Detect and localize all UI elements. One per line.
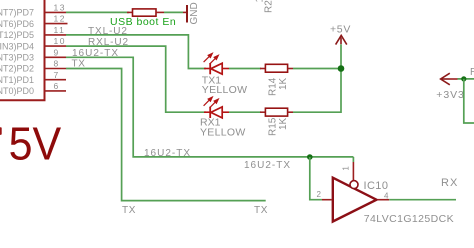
svg-text:12: 12 [54,14,66,24]
+3V3 supply arrow [441,73,450,85]
svg-text:(AIN3)PD4: (AIN3)PD4 [0,41,34,51]
wire 16U2-TX pin9 [66,57,353,157]
wire R2 left lead [127,11,133,13]
svg-text:RX: RX [441,177,458,189]
LED TX1 lead right (red) [222,68,229,70]
wire RXL-U2 pin10 [66,46,206,112]
svg-text:74LVC1G125DCK: 74LVC1G125DCK [364,213,454,225]
buffer IC10 triangle [333,178,377,222]
svg-text:YELLOW: YELLOW [200,127,246,139]
svg-text:+3V3: +3V3 [436,89,464,101]
wire R2 to GND [164,11,183,13]
resistor R15 [265,108,287,116]
svg-text:7: 7 [54,70,59,80]
cut-off red glyph at left edge [0,127,2,135]
junction +5V/R14 [338,65,345,72]
svg-text:9: 9 [54,47,59,57]
wire R14 to +5V junction [293,68,341,70]
+3V3 stub [450,78,458,80]
LED TX1 arrows [204,53,219,64]
svg-text:YELLOW: YELLOW [202,84,248,96]
wire +3V3 right [458,78,474,80]
svg-text:2: 2 [317,190,322,199]
wire down to IC10 pin1 [352,157,354,162]
LED RX1 triangle [211,107,222,118]
svg-text:TX: TX [122,205,136,216]
svg-text:4: 4 [384,191,389,200]
svg-text:(PCINT12)PD5: (PCINT12)PD5 [0,30,34,40]
pin 13 stub [45,11,67,13]
wire R2 right lead [156,11,164,13]
svg-text:1: 1 [341,166,350,171]
svg-text:5V: 5V [9,119,62,170]
resistor R14 [265,64,287,72]
svg-text:(INT6)PD6: (INT6)PD6 [0,19,34,29]
IC10 pin4 stub [378,199,390,201]
svg-text:R15: R15 [268,117,279,136]
IC10 pin2 stub [322,199,332,201]
pin 10 stub [45,45,67,47]
svg-text:(INT0)PD0: (INT0)PD0 [0,86,34,96]
R14 right lead [288,68,293,70]
wire LED RX1 to R15 [229,111,261,113]
svg-text:R14: R14 [268,77,279,96]
LED TX1 cathode bar [209,63,211,74]
wire +3V3 down to edge [464,79,474,123]
R15 right lead [288,111,293,113]
LED TX1 lead left (red) [204,68,210,70]
svg-text:+5V: +5V [330,24,351,36]
GND symbol bar [186,5,188,23]
svg-text:8: 8 [54,59,59,69]
wire pin13 to R2 [66,11,129,13]
wire TX pin8 [66,69,266,201]
wire LED TX1 to R14 [229,68,261,70]
pin 8 stub [45,68,67,70]
pin 9 stub [45,56,67,58]
svg-text:(INT2)PD2: (INT2)PD2 [0,64,34,74]
svg-text:IC10: IC10 [364,180,389,192]
R15 left lead [260,111,265,113]
svg-text:R1: R1 [470,67,474,78]
svg-text:6: 6 [54,81,59,91]
svg-text:(INT1)PD1: (INT1)PD1 [0,75,34,85]
pin 11 stub [45,34,67,36]
pin 6 stub [45,90,67,92]
R14 left lead [260,68,265,70]
svg-text:(INT3)PD3: (INT3)PD3 [0,53,34,63]
IC U2 body (ATmega16U2, right edge of box) [0,0,45,100]
resistor R2 [133,9,157,16]
svg-text:TX: TX [254,205,268,216]
LED TX1 triangle [211,63,222,74]
IC10 pin1 stub [352,162,354,180]
pin 7 stub [45,79,67,81]
svg-text:16U2-TX: 16U2-TX [144,148,191,159]
junction 16U2-TX [307,154,313,160]
LED RX1 cathode bar [209,107,211,118]
wire TXL-U2 pin11 [66,35,206,69]
GND symbol lead [183,11,187,13]
junction +3V3 [461,76,466,81]
LED RX1 lead right (red) [222,111,229,113]
wire junction down to pin2 [310,157,322,200]
svg-text:10: 10 [54,36,66,46]
svg-text:11: 11 [54,25,66,35]
IC10 enable bubble [350,181,358,189]
svg-text:1K: 1K [255,0,266,3]
svg-text:GND: GND [189,2,200,24]
svg-text:13: 13 [54,3,66,13]
svg-text:(INT7)PD7: (INT7)PD7 [0,8,34,18]
LED RX1 arrows [204,97,219,108]
LED RX1 lead left (red) [204,111,210,113]
svg-text:1K: 1K [278,77,289,90]
svg-text:1K: 1K [278,117,289,130]
wire RX [389,199,456,201]
svg-text:16U2-TX: 16U2-TX [244,160,291,171]
+5V supply arrow [336,35,347,44]
wire R15 to +5V column [293,44,341,112]
pin 12 stub [45,23,68,25]
